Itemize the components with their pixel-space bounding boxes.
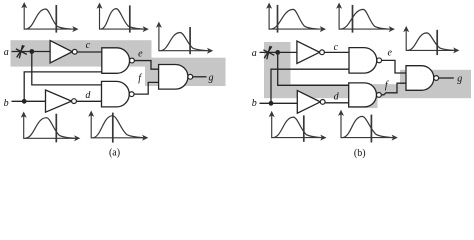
highlight region: output gate path g, figure (a) [145, 58, 226, 86]
defect X mark on input a, figure (b) [263, 46, 274, 59]
wire: e from U2a to output NAND U3, figure (a) [134, 61, 158, 70]
nand gate U3 (output g), figure (a) [159, 65, 193, 90]
wire: a junction down to NAND U2a input, figure (a) [32, 52, 102, 85]
highlight band: path a down to NAND, figure (b) [290, 84, 400, 98]
pdf plot: signal a, figure (b) [266, 3, 326, 33]
inverter U1b (input b), figure (b) [297, 91, 325, 114]
wire: c from U1a to NAND U2a, figure (a) [77, 51, 102, 53]
wire: d from U1b to NAND U2b, figure (a) [76, 100, 102, 102]
svg-text:(a): (a) [109, 148, 120, 159]
nand gate U3 (output g), figure (b) [406, 66, 439, 91]
pdf plot: signal d, figure (b) [338, 110, 398, 143]
pdf plot: signal e, figure (b) [403, 26, 459, 55]
pdf plot: signal b, figure (a) [21, 112, 81, 143]
svg-text:g: g [457, 74, 462, 85]
svg-text:(b): (b) [354, 148, 366, 159]
node: junction on b, figure (a) [22, 99, 27, 104]
wire: output g, figure (a) [193, 76, 207, 78]
pdf plot: signal c, figure (b) [336, 3, 395, 33]
wire: input b row, figure (a) [12, 100, 46, 102]
defect X mark on input a, figure (a) [16, 45, 27, 58]
node: junction on b, figure (b) [269, 101, 274, 106]
svg-text:c: c [86, 40, 91, 51]
highlight wrap: NAND U2b gate, figure (b) [348, 84, 378, 108]
wire: c from U1a to NAND U2a, figure (b) [324, 51, 349, 53]
nand gate U2b (output f), figure (b) [349, 83, 382, 107]
wire: input a row, figure (a) [12, 51, 51, 53]
svg-text:b: b [4, 98, 9, 109]
svg-text:c: c [334, 42, 339, 53]
wire: f from U2b to output NAND U3, figure (a) [134, 82, 159, 94]
svg-text:b: b [252, 98, 257, 109]
node: junction on a, figure (a) [29, 49, 34, 54]
nand gate U2a (output e), figure (a) [102, 48, 135, 74]
inverter U1a (input a), figure (a) [50, 41, 77, 63]
wire: b junction up to NAND U2a input, figure (a) [24, 72, 102, 101]
wire: b junction up to NAND U2a, figure (b) [271, 69, 349, 103]
inverter U1a (input a), figure (b) [297, 41, 325, 63]
svg-text:e: e [138, 48, 143, 59]
pdf plot: signal a, figure (a) [21, 2, 78, 33]
wire: input a row, figure (b) [260, 51, 298, 53]
pdf plot: signal e, figure (a) [156, 22, 213, 55]
wire: f from U2b to output NAND U3, figure (b) [381, 83, 406, 95]
pdf plot: signal c, figure (a) [97, 3, 149, 33]
pdf plot: signal b, figure (b) [269, 111, 327, 142]
nand gate U2b (output f), figure (a) [102, 81, 135, 107]
highlight region: output gate path g, figure (b) [400, 70, 471, 98]
wire: d from U1b to NAND U2b, figure (b) [325, 102, 349, 104]
wire: input b row, figure (b) [260, 102, 299, 104]
wire: a junction down to NAND U2b, figure (b) [278, 52, 349, 85]
wire: e from U2a to output NAND U3, figure (b) [382, 60, 406, 73]
svg-text:f: f [138, 73, 142, 84]
inverter U1b (input b), figure (a) [46, 90, 77, 112]
pdf plot: signal d, figure (a) [88, 111, 148, 143]
highlight band: defective path a-c-e, figure (a) [11, 40, 152, 66]
svg-text:a: a [4, 47, 9, 58]
nand gate U2a (output e), figure (b) [349, 48, 382, 74]
wire: output g, figure (b) [439, 77, 454, 79]
svg-text:e: e [387, 47, 392, 58]
svg-text:d: d [85, 90, 91, 101]
svg-text:g: g [209, 72, 214, 83]
svg-text:a: a [252, 48, 257, 59]
node: junction on a, figure (b) [275, 50, 280, 55]
highlight column: inputs a/b, figure (b) [264, 42, 291, 98]
